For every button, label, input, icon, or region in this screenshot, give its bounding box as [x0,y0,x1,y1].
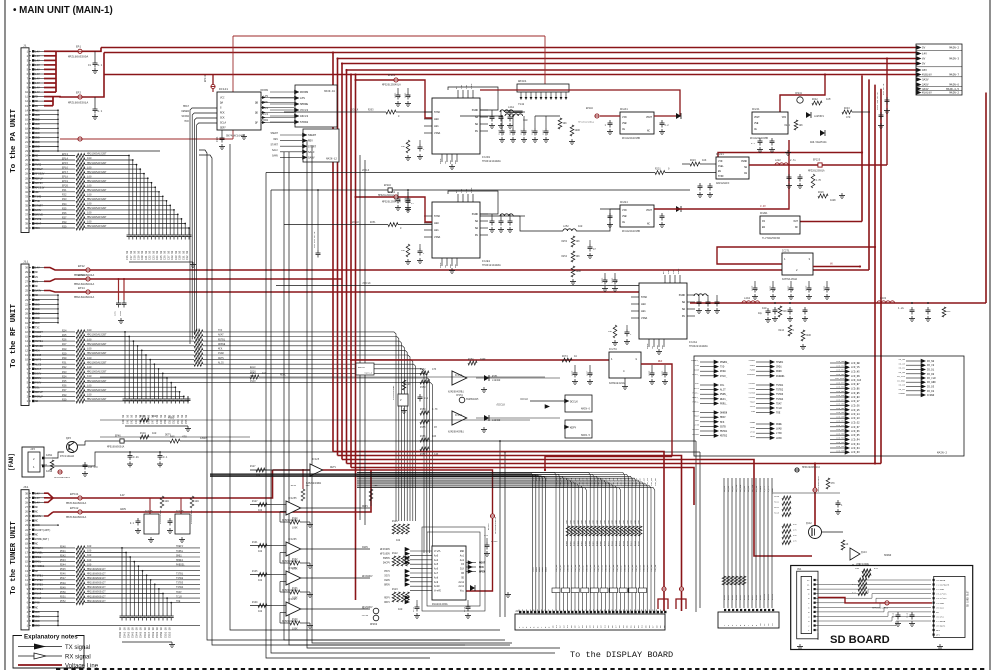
svg-text:C20 470 CR-LR: C20 470 CR-LR [313,231,316,248]
svg-text:DETV: DETV [330,466,337,469]
svg-text:OPEN: OPEN [479,570,486,573]
svg-text:LCD_G5: LCD_G5 [851,409,860,412]
resistor R221 [655,171,665,175]
resistor R156 [420,438,429,442]
svg-text:R104: R104 [739,594,742,600]
svg-text:LCD_D1: LCD_D1 [597,477,600,486]
wire+bead EP34 3A3V from J11 pin25 [34,290,45,292]
svg-text:RC4222A332MR: RC4222A332MR [750,137,769,140]
svg-text:C43 10: C43 10 [135,414,138,424]
svg-text:GND: GND [460,550,465,553]
signal block MAIN-10 [295,85,337,127]
svg-text:TSTB3: TSTB3 [35,584,43,587]
svg-text:LCD_D7: LCD_D7 [620,564,623,572]
svg-text:MPE1404040CA: MPE1404040CA [817,476,820,492]
svg-text:FWDV: FWDV [384,579,390,582]
svg-text:14V: 14V [35,82,40,85]
svg-text:RCK: RCK [220,112,225,115]
svg-text:MCK: MCK [695,419,700,422]
resistor R245 [801,330,805,341]
wire red display hooks [658,599,668,609]
svg-text:RC4222A331MR: RC4222A331MR [622,230,641,233]
svg-text:GND: GND [35,322,40,325]
svg-text:IC2E1: IC2E1 [482,260,490,263]
capacitor C20 on bus [317,190,319,250]
svg-text:SSL: SSL [35,159,40,162]
inductor L201 output B1 [500,110,504,112]
wires DC141 to MAIN-9 block [261,97,294,99]
ic DC141 SN74AHC164PW [217,92,261,130]
svg-text:Ax2: Ax2 [460,559,465,562]
svg-text:RX: RX [35,100,39,103]
svg-text:R37: R37 [62,389,67,392]
svg-text:RXD8: RXD8 [720,370,726,373]
legend Voltage Line [18,664,62,666]
wire red IC271 feed [717,247,875,264]
svg-text:VIN: VIN [622,116,627,119]
svg-text:EP202: EP202 [384,184,392,187]
svg-text:LCD_D6: LCD_D6 [578,564,581,572]
svg-text:EALC: EALC [250,366,256,369]
svg-text:47K: 47K [831,482,836,485]
svg-text:PWR2: PWR2 [35,164,42,167]
inductor L2A3 on red [742,301,746,303]
svg-text:OUT: OUT [793,220,798,223]
svg-text:C211: C211 [404,92,407,98]
svg-text:EP2: EP2 [76,92,81,95]
svg-text:VOUT: VOUT [646,116,653,119]
wire vertical x307 [307,140,560,648]
wire GND bus J11 pins 18-24 [34,294,58,296]
capacitor C2B1 [407,190,409,198]
svg-text:C270: C270 [751,285,754,291]
svg-text:DCCLK: DCCLK [520,398,528,401]
svg-text:10p: 10p [758,312,763,315]
svg-text:L18400: L18400 [492,379,501,382]
svg-text:LCD_D5: LCD_D5 [612,477,615,486]
svg-text:LCD_D4: LCD_D4 [570,564,573,572]
ferrite bead EP225 [818,163,822,167]
svg-text:LCD_D2: LCD_D2 [639,564,642,572]
svg-text:VOUT: VOUT [646,209,653,212]
svg-text:EP102: EP102 [586,107,594,110]
svg-text:START: START [270,143,278,146]
wire 2CCLK row to B2 [284,224,388,226]
svg-text:C271: C271 [661,370,664,376]
wire vertical x230 [230,144,500,630]
svg-text:MPZ1608S300A: MPZ1608S300A [68,56,88,59]
wire red DC221 feed [718,153,862,158]
svg-text:TSTB3: TSTB3 [748,391,755,394]
svg-text:R152: R152 [420,368,426,371]
wire red to SD [342,460,812,557]
svg-text:ISAR: ISAR [35,354,42,357]
svg-text:SSENT: SSENT [308,134,316,137]
svg-text:LCD_D5: LCD_D5 [650,477,653,486]
svg-text:SW: SW [682,308,686,311]
svg-text:R274: R274 [562,355,568,358]
diode D204 [676,206,681,212]
svg-text:TSTB1: TSTB1 [748,382,755,385]
svg-text:4.7K: 4.7K [432,408,438,411]
wire red vertical D x346.5 [346,70,348,464]
svg-text:IC1265: IC1265 [288,538,297,541]
svg-text:EP542: EP542 [70,507,79,510]
svg-text:100: 100 [152,432,157,435]
svg-text:T3TB2: T3TB2 [176,577,184,580]
svg-text:TSTB2: TSTB2 [35,579,43,582]
svg-text:MAIN-7: MAIN-7 [949,74,959,77]
svg-text:R318: R318 [633,540,636,546]
svg-text:IC125: IC125 [312,458,320,461]
svg-text:IO_GND: IO_GND [897,379,906,382]
svg-text:C201: C201 [394,92,397,98]
ferrite bead on red drop B [679,587,683,591]
svg-text:AVCNT(ANT): AVCNT(ANT) [35,528,51,532]
wire rail 3 [338,58,917,60]
svg-text:FSCV: FSCV [35,382,42,385]
svg-text:2A5V: 2A5V [922,84,929,87]
svg-text:SOGND: SOGND [759,485,762,492]
svg-text:R105: R105 [743,594,746,600]
svg-text:GND: GND [449,159,452,164]
svg-text:IO_CLR: IO_CLR [927,377,936,380]
resistor R158 [468,361,477,365]
svg-text:LCD_D4: LCD_D4 [570,477,573,486]
svg-text:#2:CMD: #2:CMD [936,588,945,591]
svg-text:T3TB4: T3TB4 [176,586,184,589]
svg-text:SD_D3: SD_D3 [747,485,750,492]
svg-text:R304: R304 [580,540,583,546]
svg-text:R27: R27 [62,343,67,346]
svg-text:SD CARD SLOT: SD CARD SLOT [967,590,970,607]
wire red left IC270 [545,457,672,471]
svg-text:RFIS2V: RFIS2V [35,173,45,176]
left frame border line [4,0,6,670]
svg-text:MPE1608S601A: MPE1608S601A [107,446,125,449]
svg-text:C111: C111 [412,606,415,612]
svg-text:Ax6: Ax6 [434,568,439,571]
svg-text:SD_CMD: SD_CMD [751,484,754,492]
svg-text:39K: 39K [563,122,568,125]
svg-text:PANUR1: PANUR1 [776,375,785,378]
svg-text:PGND: PGND [470,83,473,89]
wire red stub to IC135 [180,498,182,514]
svg-text:C22 10: C22 10 [149,250,152,260]
svg-text:2.2: 2.2 [665,124,670,127]
capacitors C225/C226 [788,174,790,177]
svg-text:C141: C141 [216,136,219,142]
ferrite bead EP141 [211,84,215,88]
svg-text:LCD_G2: LCD_G2 [836,420,845,423]
wire box signal columns (MAIN-2) [694,356,964,456]
svg-text:GND: GND [35,127,40,130]
svg-text:0.1: 0.1 [773,286,776,291]
ic IC271 NJM78L05UA [782,253,813,275]
svg-text:PABSE1: PABSE1 [176,563,185,566]
svg-text:C548 10: C548 10 [152,627,155,638]
svg-text:IC125: IC125 [145,510,153,513]
svg-text:IC2A1: IC2A1 [689,341,697,344]
resistor R151 [402,380,406,390]
svg-text:R550: R550 [60,591,66,594]
svg-text:DTC114EUA: DTC114EUA [60,455,74,458]
svg-text:R35: R35 [62,380,67,383]
svg-text:NC: NC [647,223,651,226]
svg-text:NC: NC [35,520,39,523]
transistor CP111 [373,608,379,614]
svg-text:R552: R552 [60,600,66,603]
svg-text:DRIVE: DRIVE [35,214,43,217]
capacitor C48 [129,453,131,456]
ic DC241 RC4222A332MR [752,112,788,134]
svg-text:REV: REV [273,138,278,141]
wire Q45 to FANV [77,441,85,445]
svg-text:3A3V: 3A3V [120,508,127,511]
svg-text:C1: C1 [88,64,92,67]
connector J1 (To the PA UNIT) [21,48,29,233]
svg-text:PG: PG [475,234,479,237]
svg-text:LCD_D6: LCD_D6 [654,477,657,486]
svg-text:MSTB1: MSTB1 [692,428,699,431]
svg-text:14V: 14V [35,91,40,94]
svg-text:LCD_D8: LCD_D8 [623,477,626,486]
svg-text:R38: R38 [62,394,67,397]
svg-text:C278: C278 [571,370,574,376]
svg-text:IO_D1: IO_D1 [927,369,935,372]
svg-text:EP16: EP16 [62,167,69,170]
wire red out IC270 [641,364,672,457]
svg-text:IC135: IC135 [176,510,184,513]
svg-text:C551 10: C551 10 [164,627,167,638]
capacitor C151 [419,394,421,397]
resistor R113 [841,540,845,550]
svg-text:T3TB3: T3TB3 [176,582,184,585]
transistor Q45 [67,442,78,453]
svg-text:OHNSN: OHNSN [692,410,699,413]
svg-text:R540: R540 [60,545,66,548]
wire y139 to bead EP5 [60,138,233,140]
svg-text:LKAD: LKAD [750,426,756,429]
svg-text:GND: GND [35,625,40,628]
svg-text:100: 100 [762,307,767,310]
svg-text:R253: R253 [561,240,567,243]
svg-text:IO_N0: IO_N0 [898,358,905,361]
svg-text:GND: GND [656,344,659,349]
svg-text:R226: R226 [818,191,824,194]
svg-text:R302: R302 [573,540,576,546]
svg-text:LCD_DN: LCD_DN [836,373,845,376]
wire red vertical x986 [985,93,987,304]
svg-text:100K: 100K [830,199,836,202]
svg-text:R31: R31 [62,189,67,192]
wire red bus y463.5 [347,463,882,465]
resistor R226 [818,194,828,198]
svg-text:IC1255: IC1255 [288,497,297,500]
svg-text:R135: R135 [252,570,258,573]
bead EP45 [58,470,62,474]
wire loop around ADC outer [422,527,485,611]
capacitors around IC2E1 [397,192,399,196]
svg-text:VCCLS: VCCLS [260,107,268,110]
svg-text:C2S7 470 CR-LR: C2S7 470 CR-LR [876,92,879,110]
svg-text:FORLP: FORLP [35,396,43,399]
svg-text:SMDE1: SMDE1 [176,559,184,562]
wire red vertical x887 (DC221 out riser) [886,59,888,166]
svg-text:LCD_D0: LCD_D0 [593,564,596,572]
diode D241 [806,112,811,118]
svg-text:ANTS: ANTS [35,359,42,362]
svg-text:R545: R545 [60,568,66,571]
resistor array display bundle [566,526,570,536]
resistor R155 [420,420,429,424]
resistor R152 [420,371,429,375]
svg-text:RSTB1: RSTB1 [35,340,43,343]
svg-text:LCD_D9: LCD_D9 [589,477,592,486]
svg-text:100: 100 [374,484,379,487]
svg-text:SD BOARD: SD BOARD [830,634,890,646]
svg-text:VrefE: VrefE [434,590,442,593]
svg-text:VCC: VCC [220,97,225,100]
wire rail 4 [342,63,916,65]
svg-text:EP20: EP20 [62,185,69,188]
svg-text:PWR0: PWR0 [750,368,756,371]
svg-text:C202: C202 [119,310,122,316]
svg-text:R154: R154 [420,408,426,411]
svg-text:LCD_D5: LCD_D5 [574,477,577,486]
svg-text:[FAN]: [FAN] [8,453,15,471]
svg-text:START: START [35,205,43,208]
ferrite bead EP121 (vertical) [490,514,494,518]
svg-text:R315: R315 [622,540,625,546]
svg-text:LKAD: LKAD [776,428,782,431]
svg-text:LB0: LB0 [434,222,439,225]
svg-text:SD_D1: SD_D1 [731,485,734,492]
capacitor C246 [767,308,769,311]
svg-text:#4:VDD: #4:VDD [936,602,945,605]
svg-text:GND: GND [35,137,40,140]
svg-text:C545 10: C545 10 [140,627,143,638]
svg-text:WF200DV: WF200DV [362,606,373,609]
svg-text:EP141: EP141 [204,74,207,82]
svg-text:SANV: SANV [272,155,279,158]
svg-text:C17 10: C17 10 [130,250,133,260]
svg-text:DRSSB: DRSSB [218,343,226,346]
svg-text:VIN: VIN [622,209,627,212]
svg-text:ALCT: ALCT [694,387,700,390]
capacitors around IC2D1 [397,88,399,92]
svg-text:3A3V: 3A3V [922,88,929,91]
svg-text:LPS: LPS [300,97,305,100]
svg-text:R254: R254 [561,255,567,258]
svg-text:POR1_: POR1_ [692,401,699,404]
svg-text:NC: NC [35,400,39,403]
svg-text:8V: 8V [35,276,39,279]
svg-text:MPE1608S601A: MPE1608S601A [74,283,94,286]
svg-text:LCD_D0: LCD_D0 [631,564,634,572]
svg-text:R548: R548 [60,582,66,585]
svg-text:C21 10: C21 10 [145,250,148,260]
svg-text:Ax11: Ax11 [458,585,464,588]
svg-text:R1010: R1010 [763,593,766,600]
svg-text:C540 10: C540 10 [119,627,122,638]
svg-text:TCLR: TCLR [176,595,182,598]
svg-text:CE: CE [622,128,626,131]
svg-text:LCD_B3: LCD_B3 [851,396,860,399]
capacitor C241 [759,138,761,141]
svg-text:PWRE: PWRE [776,423,782,426]
svg-text:LCD_R4: LCD_R4 [836,441,845,444]
svg-text:MPZ2012S601A: MPZ2012S601A [808,170,825,173]
svg-text:100: 100 [196,338,201,341]
wire red SD VDD [818,598,885,603]
capacitor C242 [771,138,773,141]
svg-text:LCD_D2: LCD_D2 [639,477,642,486]
inductor L222 on red [775,163,779,165]
svg-text:SD_D2: SD_D2 [743,485,746,492]
svg-text:A5V: A5V [922,69,927,72]
wire red to display B [338,456,682,612]
svg-text:39K: 39K [576,255,581,258]
capacitor C2S7 on x881 [880,112,882,115]
svg-text:R26: R26 [62,339,67,342]
svg-text:14V: 14V [35,69,40,72]
svg-text:TOE: TOE [751,410,756,413]
ferrite bead on red drop A [662,587,666,591]
svg-text:DC241: DC241 [752,108,760,111]
svg-text:GND: GND [35,615,40,618]
svg-text:TREFV: TREFV [176,545,184,548]
svg-text:EP33: EP33 [78,274,85,277]
ic DC2B1 TLV70025DCKR [760,216,800,234]
svg-text:VINA: VINA [641,317,648,320]
resistor R112 [826,478,830,489]
svg-text:FWDV: FWDV [362,546,369,549]
svg-text:L2A1: L2A1 [508,106,515,109]
wire red vertical x881 [880,89,882,464]
ground below C2 [94,114,96,117]
svg-text:AGND: AGND [439,262,442,268]
connector J21 (display board) [515,614,665,630]
ground TUNER capacitor bank [171,642,173,645]
wire 8V bus from J1 pins 11-13 [34,96,45,98]
capacitor C112a [467,600,469,604]
svg-text:14K: 14K [434,453,439,456]
svg-text:SW: SW [475,123,479,126]
svg-text:PG: PG [475,130,479,133]
svg-text:51K: 51K [947,310,952,313]
svg-text:R303: R303 [576,540,579,546]
wires ADC inputs [410,550,432,552]
svg-text:L222: L222 [775,159,781,162]
svg-text:MPS20L2040LA: MPS20L2040LA [378,194,395,197]
wire loop around ADC inner [427,532,480,606]
svg-text:R306: R306 [588,540,591,546]
svg-text:LTXD: LTXD [750,430,756,433]
svg-text:0.1: 0.1 [98,110,103,113]
wire 2CCLK row to B1 [284,111,386,113]
svg-text:PGND: PGND [472,109,479,112]
capacitor C45 [84,462,86,465]
svg-text:100: 100 [195,500,200,503]
resistor R244b [942,307,946,317]
svg-text:R35: R35 [62,207,67,210]
svg-text:SSENT: SSENT [270,132,278,135]
svg-text:R300: R300 [565,540,568,546]
svg-text:GND: GND [35,317,40,320]
svg-text:NJM78L05UA: NJM78L05UA [782,278,798,281]
svg-text:R315: R315 [291,484,297,487]
